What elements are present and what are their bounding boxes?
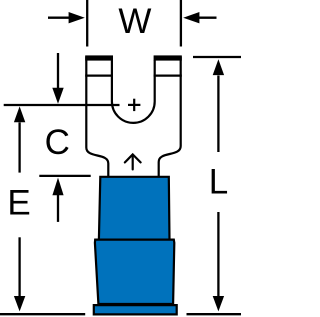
svg-text:W: W	[118, 2, 151, 41]
svg-text:C: C	[45, 123, 70, 162]
svg-text:L: L	[209, 163, 228, 202]
svg-text:E: E	[7, 184, 30, 223]
